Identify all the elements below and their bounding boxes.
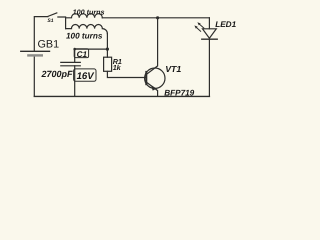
wire C1 to ground rail [74, 66, 76, 97]
corner dot at C1 wire [73, 48, 76, 51]
wire battery+ to switch [34, 17, 48, 51]
VT1 collector lead [147, 18, 158, 75]
svg-text:GB1: GB1 [38, 39, 60, 51]
label frame around 16V [74, 69, 96, 81]
top rail to LED corner [102, 17, 209, 19]
wire switch right post to windings node [58, 17, 66, 29]
LED1 wire to ground rail [208, 39, 210, 96]
battery GB1 long plate [20, 50, 50, 52]
resistor R1 body [104, 57, 112, 71]
svg-text:100 turns: 100 turns [66, 31, 103, 40]
svg-text:C1: C1 [77, 50, 88, 59]
LED1 cathode bar [202, 38, 217, 40]
switch S1 lever [48, 13, 57, 17]
LED1 emission arrow 1 [197, 22, 204, 28]
VT1 base bar [145, 71, 147, 85]
svg-text:BFP719: BFP719 [164, 88, 194, 97]
ground rail (bottom) [34, 95, 209, 97]
svg-text:LED1: LED1 [215, 20, 236, 29]
capacitor C1 top plate [61, 61, 81, 63]
wire winding2 down to node [106, 34, 108, 49]
junction dot collector/top rail [156, 16, 159, 19]
svg-text:2700pF: 2700pF [41, 69, 74, 79]
svg-text:100 turns: 100 turns [73, 7, 105, 16]
svg-text:VT1: VT1 [165, 64, 181, 74]
VT1 emitter arrowhead [151, 85, 157, 91]
svg-text:16V: 16V [77, 71, 96, 82]
LED1 wire from rail down [208, 18, 210, 29]
label frame around C1 [74, 49, 88, 58]
VT1 emitter lead [147, 82, 158, 96]
transistor VT1 circle [145, 68, 165, 88]
junction dot node winding2/R1/C1 [106, 48, 109, 51]
wire R1 bottom to base of VT1 [107, 71, 146, 77]
wire node to C1 [75, 49, 108, 62]
LED1 emission arrow 2 [194, 25, 201, 31]
LED1 triangle (anode) [203, 29, 217, 38]
wire node to R1 top [106, 49, 108, 57]
wire battery negative to ground rail [33, 57, 35, 97]
svg-text:S1: S1 [47, 18, 53, 24]
winding 2 (100 turns) [66, 25, 108, 34]
battery GB1 short plate [27, 54, 43, 56]
winding 1 (100 turns) [66, 14, 103, 18]
capacitor C1 bottom plate [61, 65, 81, 67]
svg-text:1k: 1k [113, 63, 122, 72]
